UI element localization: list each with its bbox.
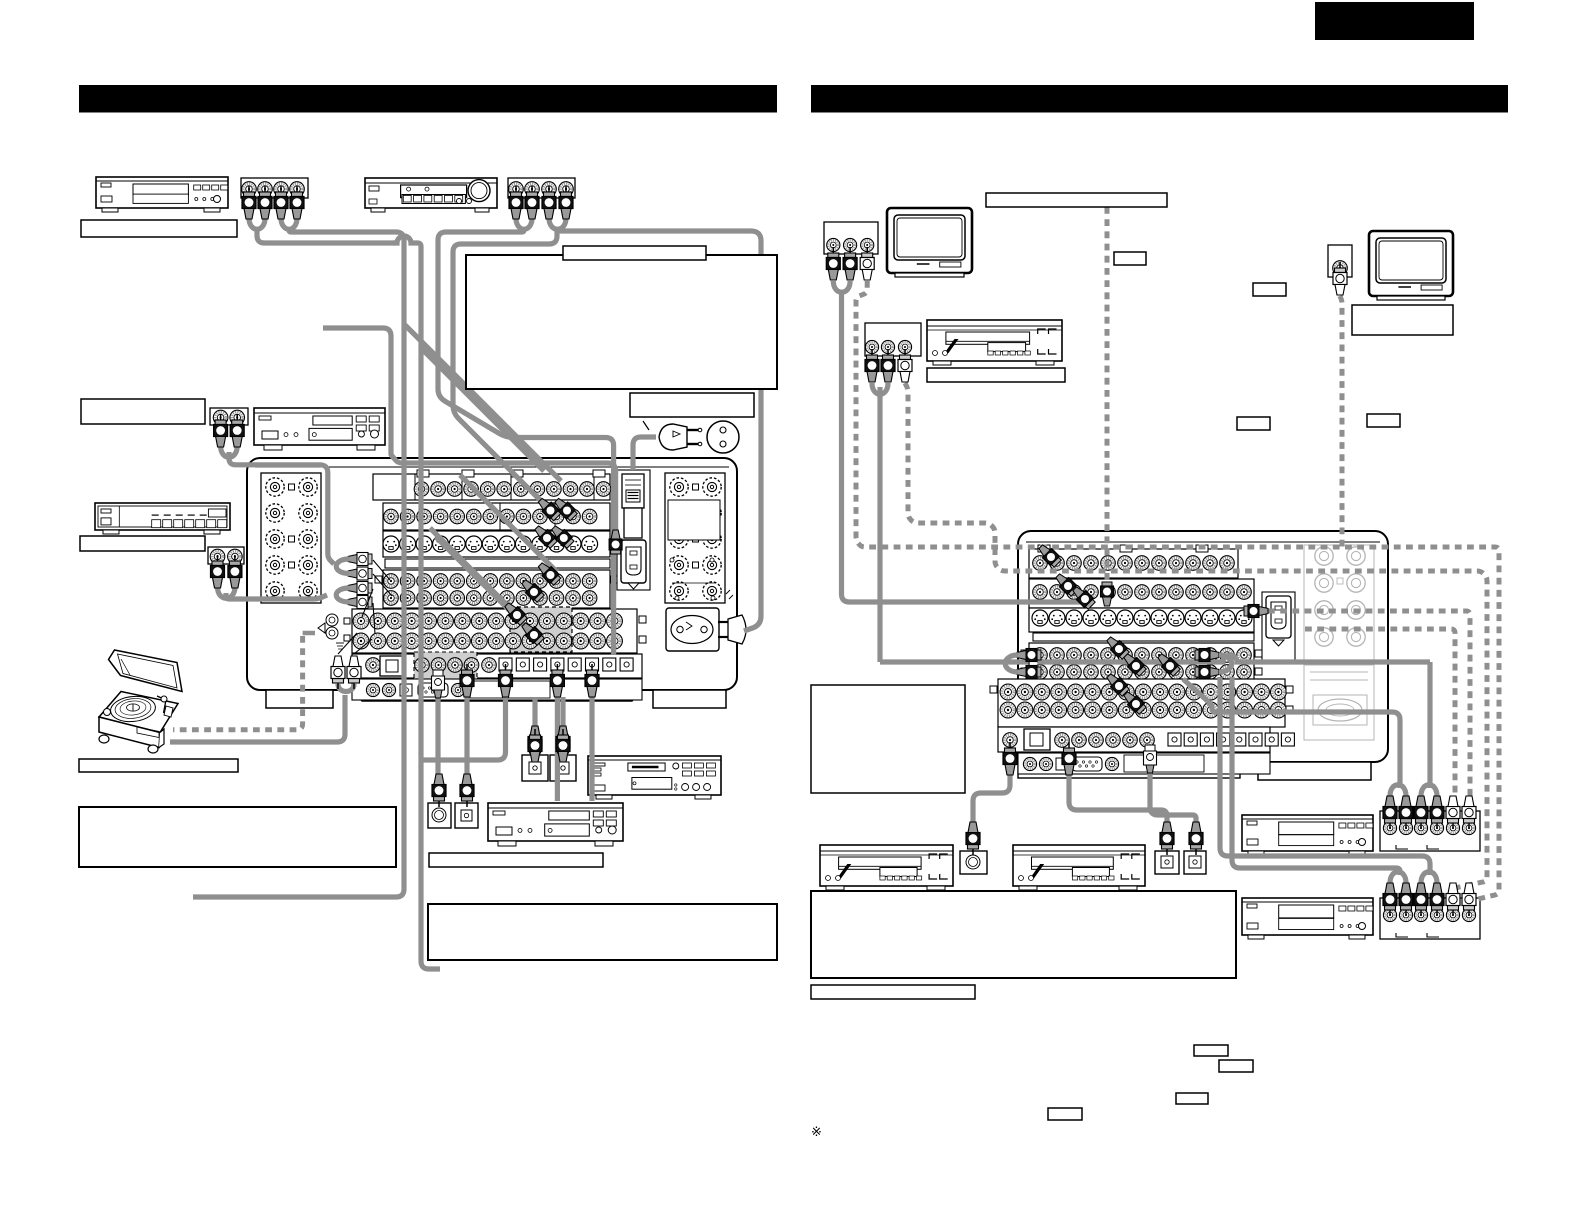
- svg-text:※: ※: [811, 1124, 822, 1139]
